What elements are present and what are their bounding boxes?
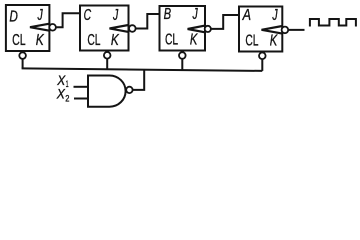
clear bubble under C <box>104 52 111 59</box>
svg-text:K: K <box>270 32 278 49</box>
wire: external clock input to A <box>288 29 304 31</box>
svg-text:1: 1 <box>66 79 69 90</box>
svg-text:J: J <box>112 7 119 24</box>
svg-text:A: A <box>242 7 251 24</box>
clock edge arrow U1 (A) <box>262 26 283 34</box>
wire: A output to B clock <box>211 15 239 29</box>
NAND gate G1 output bubble <box>126 87 132 93</box>
svg-text:K: K <box>36 32 45 49</box>
svg-text:J: J <box>37 7 44 24</box>
clock edge arrow U4 (D) <box>30 24 49 31</box>
clock bubble U2 (B) <box>205 26 211 32</box>
clock edge arrow U2 (B) <box>188 26 205 33</box>
svg-text:C: C <box>84 7 92 24</box>
svg-text:D: D <box>9 9 18 26</box>
wire: NAND output riser to clear bus <box>133 70 145 90</box>
flip-flop U2 box (B) <box>160 6 206 51</box>
clock bubble U4 (D) <box>49 24 56 31</box>
clear bubble under D <box>19 52 26 59</box>
clear bubble under A <box>259 53 266 60</box>
wire: clear bus <box>22 68 263 71</box>
svg-text:J: J <box>192 6 199 23</box>
flip-flop U1 box (A) <box>239 7 282 52</box>
svg-text:CL: CL <box>12 32 26 49</box>
svg-text:CL: CL <box>165 32 178 49</box>
wire: B output to C clock <box>136 14 160 29</box>
svg-text:CL: CL <box>87 32 100 49</box>
square wave clock symbol <box>310 19 356 27</box>
wire: X2 input stub <box>74 98 88 100</box>
wire: clear stub under C <box>106 59 108 70</box>
wire: clear stub under A <box>261 59 263 71</box>
svg-text:K: K <box>111 32 120 49</box>
flip-flop U4 box (D) <box>6 5 50 51</box>
wire: X1 input stub <box>74 86 89 88</box>
wire: C output to D clock <box>56 13 80 27</box>
NAND gate G1 body <box>88 75 126 106</box>
svg-text:J: J <box>272 7 279 24</box>
clear bubble under B <box>179 52 186 59</box>
wire: clear stub under B <box>181 59 183 70</box>
wire: clear stub under D <box>22 59 24 69</box>
clock bubble U1 (A) <box>282 27 289 34</box>
svg-text:B: B <box>164 6 172 23</box>
svg-text:2: 2 <box>65 93 69 104</box>
svg-text:CL: CL <box>245 32 258 49</box>
svg-text:K: K <box>190 32 198 49</box>
clock bubble U3 (C) <box>129 25 136 32</box>
clock edge arrow U3 (C) <box>110 25 129 32</box>
flip-flop U3 box (C) <box>80 6 129 51</box>
